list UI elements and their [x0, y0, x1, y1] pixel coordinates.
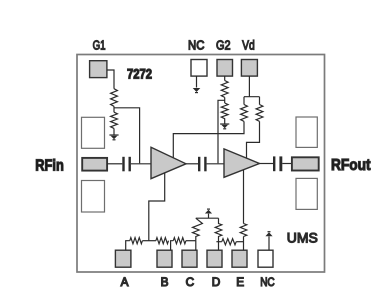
op-amp U2 (stage 2) — [224, 149, 260, 177]
pad RFin — [82, 158, 107, 171]
wire amp1 out to C2 — [186, 163, 198, 165]
down arrow (NC top) — [193, 88, 201, 93]
ground via (G1 chain) — [109, 128, 118, 139]
pad open (left bottom) — [82, 181, 105, 213]
ground via (G2 chain) — [220, 118, 229, 129]
svg-text:UMS: UMS — [287, 230, 318, 246]
wire R13 to amp2 — [243, 170, 245, 224]
pad RFout — [292, 157, 319, 170]
pad E — [232, 250, 247, 267]
svg-text:7272: 7272 — [127, 67, 152, 82]
pad Vd — [241, 60, 257, 77]
pad B — [157, 250, 172, 267]
pad A — [115, 250, 130, 267]
wire NC stub — [196, 76, 198, 87]
svg-text:G2: G2 — [216, 38, 231, 53]
pad G2 — [217, 60, 233, 77]
wire D node to R12 — [216, 241, 221, 243]
svg-text:C: C — [186, 275, 195, 289]
pad G1 — [90, 61, 107, 78]
svg-text:B: B — [161, 275, 169, 289]
chip outline frame — [77, 55, 325, 273]
wire C1 to amp1 — [131, 163, 151, 165]
pad open (right top) — [296, 117, 317, 147]
wire pad E up — [243, 237, 245, 251]
up arrow (NC bottom) — [265, 232, 272, 251]
resistor R2 (G1 bias lower) — [111, 112, 118, 128]
wire stage1 source to bottom network — [149, 173, 165, 241]
svg-text:E: E — [236, 275, 244, 289]
wire Vd split — [244, 76, 260, 104]
resistor R12 (D to E) — [222, 239, 236, 245]
wire C3 to RFout — [282, 163, 292, 165]
wire drain2 feed — [247, 121, 260, 158]
resistor R13 (E up to amp2) — [240, 223, 247, 236]
wire G1 pad to R1 — [107, 70, 114, 89]
pad NC (bottom) — [258, 250, 273, 267]
wire R1 junction to gate1 node — [114, 106, 140, 163]
pad NC (top) — [191, 60, 207, 77]
pad open (left top) — [82, 117, 105, 148]
resistor R1 (G1 bias upper) — [111, 89, 118, 107]
wire node to R8 — [142, 240, 156, 242]
svg-text:D: D — [212, 275, 221, 289]
svg-text:RFin: RFin — [35, 158, 64, 175]
pad D — [207, 250, 222, 267]
resistor R5 (Vd stage1) — [241, 105, 248, 122]
wire pad B up — [171, 241, 174, 251]
capacitor C1 — [122, 157, 131, 172]
resistor R10 (C node up) — [193, 218, 203, 241]
svg-text:NC: NC — [188, 38, 204, 53]
wire G2 pad to R3 — [224, 76, 226, 80]
capacitor C2 — [198, 157, 207, 172]
op-amp U1 (stage 1) — [151, 147, 186, 178]
wire amp2 out to C3 — [260, 163, 274, 165]
wire RFin to C1 — [107, 163, 122, 165]
resistor R11 (bar down to D) — [215, 218, 222, 250]
wire pad A up — [126, 241, 130, 251]
resistor R4 (G2 bias lower) — [221, 103, 228, 119]
resistor R8 (node to B) — [156, 238, 169, 244]
resistor R9 (B to C) — [173, 238, 186, 244]
svg-text:Vd: Vd — [242, 38, 255, 53]
svg-text:RFout: RFout — [331, 157, 371, 174]
wire C2 to amp2 — [207, 163, 224, 165]
wire drain1 feed — [173, 121, 244, 158]
resistor R3 (G2 bias upper) — [221, 81, 228, 98]
pad C — [182, 250, 197, 267]
wire R12 to E node — [236, 241, 243, 243]
capacitor C3 — [273, 156, 282, 171]
svg-text:A: A — [121, 275, 129, 289]
pad open (right bottom) — [296, 178, 317, 209]
wire R9 to C node — [186, 240, 196, 242]
resistor R7 (A to node) — [130, 238, 143, 244]
node bar with via arrow — [196, 209, 219, 218]
wire pad C up — [195, 241, 197, 251]
svg-text:NC: NC — [260, 275, 275, 289]
wire gate2 bias branch — [218, 97, 225, 163]
resistor R6 (Vd stage2) — [256, 105, 263, 122]
svg-text:G1: G1 — [93, 38, 106, 53]
